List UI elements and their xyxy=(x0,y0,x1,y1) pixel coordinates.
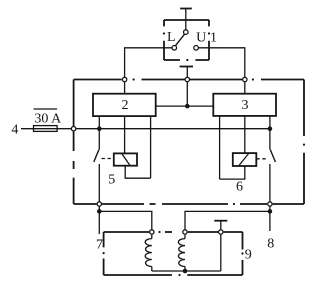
svg-text:3: 3 xyxy=(242,98,249,113)
svg-text:2: 2 xyxy=(122,98,129,113)
svg-text:7: 7 xyxy=(96,237,103,252)
svg-text:9: 9 xyxy=(245,248,252,263)
svg-text:6: 6 xyxy=(236,180,243,195)
svg-text:4: 4 xyxy=(11,123,18,138)
svg-text:L: L xyxy=(167,30,176,45)
svg-text:1: 1 xyxy=(210,31,217,46)
svg-text:U: U xyxy=(196,31,206,46)
svg-text:30 A: 30 A xyxy=(34,111,62,126)
svg-text:8: 8 xyxy=(267,237,274,252)
svg-text:5: 5 xyxy=(108,173,115,188)
